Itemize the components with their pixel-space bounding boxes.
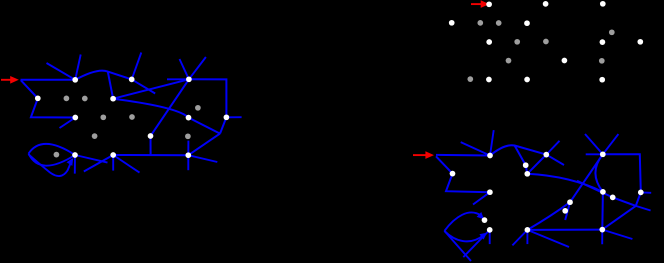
stub from L2 down-right (602, 230, 632, 239)
node I2 (487, 227, 493, 233)
stub from J down-left (84, 155, 113, 172)
stub from D2 down-right (546, 155, 564, 165)
stub from J down-right (113, 155, 139, 173)
city K dot (562, 58, 568, 64)
stub from I2 down (489, 230, 491, 244)
upper arc tip to P1 (444, 213, 481, 231)
city D dot (543, 1, 549, 7)
stub from L down (187, 155, 189, 170)
city A dot (486, 1, 492, 7)
gray node g8 (185, 133, 191, 139)
red start arrow (413, 154, 426, 156)
node C2 (487, 189, 493, 195)
unvisited city g1 dot (477, 20, 483, 26)
edge B2-C2 with corner bend (446, 174, 490, 193)
edge F-K diagonal (151, 79, 189, 136)
city F dot (600, 1, 606, 7)
stub from lens tip down-right (444, 231, 471, 261)
unvisited city g5 dot (506, 58, 512, 64)
stub from F up-left (180, 59, 189, 79)
edge D2-E2 (527, 155, 546, 174)
segment G to junction Y (189, 118, 221, 134)
unvisited city g6 dot (467, 76, 473, 82)
node H (224, 114, 230, 120)
node L (185, 152, 191, 158)
city I dot (486, 77, 492, 83)
start segment to node A2 (436, 154, 490, 157)
node B2 (450, 171, 456, 177)
stub from junction Y2 down-right (636, 206, 651, 211)
node A (72, 77, 78, 83)
stub from A up (75, 55, 81, 80)
unvisited city g8 dot (599, 58, 605, 64)
gray node g4 (129, 114, 135, 120)
edge F2-H2 with right-angle corner (603, 154, 641, 192)
stub from D down-right (132, 79, 156, 93)
node D2 (543, 152, 549, 158)
node F2 (600, 151, 606, 157)
node E2 (524, 171, 530, 177)
city J dot (524, 77, 530, 83)
lens upper arc (29, 144, 76, 155)
edge J-L (113, 154, 188, 156)
red arrow marking start city (471, 3, 482, 5)
stub from C down-left (60, 118, 76, 129)
city C dot (486, 39, 492, 45)
stub from I down (74, 155, 76, 174)
node M2 (610, 195, 616, 201)
segment L2 to junction Y2 (602, 206, 636, 230)
node G (186, 115, 192, 121)
stub from C2 down-left (473, 192, 490, 204)
stub from F2 up-left (585, 134, 603, 154)
segment M2 to junction Y2 (613, 197, 636, 206)
node P12 (482, 217, 488, 223)
red start arrow (1, 79, 11, 81)
segment K down to J-L line (150, 136, 152, 155)
node F (186, 76, 192, 82)
segment apex to N1 (515, 146, 526, 166)
stub from L up (187, 141, 189, 156)
edge E-F (113, 79, 189, 98)
lower arc tip toward I2 (444, 231, 484, 241)
city E dot (524, 20, 530, 26)
unvisited city g7 dot (609, 29, 615, 35)
city B dot (449, 20, 455, 26)
gray node g7 (195, 105, 201, 111)
edge F2-K2 diagonal (570, 154, 603, 202)
line into I2 from lower-left (463, 230, 489, 257)
stub from L down-right (188, 155, 217, 162)
node K2 (562, 208, 568, 214)
node C (72, 115, 78, 121)
stub from H2 right (641, 191, 651, 193)
lens lower arc (29, 154, 76, 166)
stub from F left (167, 78, 189, 80)
city H dot (637, 39, 643, 45)
node D (129, 77, 135, 83)
stub from H right (226, 116, 241, 118)
stub from J2 down-left (512, 230, 527, 246)
stub from J2 down-right (527, 230, 569, 247)
edge F-H with right-angle corner (189, 79, 227, 117)
unvisited city g4 dot (543, 39, 549, 45)
node K (148, 133, 154, 139)
stub from D up-right (132, 53, 142, 80)
edge A2-D2 curved over apex (490, 145, 546, 155)
unvisited city g3 dot (514, 39, 520, 45)
segment K2 down through K (565, 202, 570, 220)
stub from J2 down (526, 230, 528, 244)
node J2 (525, 227, 531, 233)
edge A-D curved over apex (75, 71, 132, 80)
segment H2 to junction Y2 (636, 192, 641, 206)
stub from F2 left (586, 153, 603, 155)
stub from A2 up (490, 130, 494, 155)
stub from A up-left (47, 63, 76, 80)
edge E2-G2 bowed (527, 174, 603, 192)
edge B-C with corner bend (31, 98, 75, 117)
gray node g2 (82, 96, 88, 102)
stub from F2 up-right (603, 134, 619, 154)
arrowhead of under-arc at I (67, 158, 74, 166)
node J (110, 152, 116, 158)
arrowhead on upper arc at P1 (477, 212, 484, 219)
segment start down to B (21, 80, 38, 98)
edge J2-L2 (527, 229, 602, 231)
arrowhead on lower arc at I2 (479, 233, 487, 240)
gray node g6 (54, 152, 60, 158)
node L2 (599, 227, 605, 233)
under-arc from lens tip into I (29, 155, 71, 176)
stub from I down-right (75, 155, 108, 163)
node A2 (487, 153, 493, 159)
edge F2-G2 gentle curve (595, 154, 602, 192)
stub from L2 down (601, 230, 603, 245)
stub from A2 up-left (461, 142, 490, 155)
edge K2-J2 curve (527, 202, 570, 230)
start segment to node A (21, 79, 76, 81)
unvisited city g2 dot (496, 20, 502, 26)
gray node g5 (92, 133, 98, 139)
segment crossing to M2 (577, 181, 613, 198)
node B (35, 95, 41, 101)
node G2 (600, 189, 606, 195)
node I (72, 152, 78, 158)
segment apex to E (108, 72, 113, 99)
node H2 (638, 190, 644, 196)
edge G2-L2 vertical (601, 192, 604, 230)
gray node g3 (100, 114, 106, 120)
edge E-G bowed (113, 99, 188, 118)
stub from F up-right (189, 57, 206, 79)
node N12 (523, 162, 529, 168)
segment H to junction Y (220, 117, 226, 133)
segment N1 to E2 (526, 165, 528, 174)
node E (110, 96, 116, 102)
city G dot (600, 39, 606, 45)
gray node g1 (64, 96, 70, 102)
segment L to junction Y (188, 134, 220, 156)
city L dot (599, 77, 605, 83)
stub from D2 up-right (546, 141, 559, 155)
start segment down to B2 (436, 156, 453, 173)
node K22 (567, 199, 573, 205)
stub from J down (112, 155, 114, 171)
